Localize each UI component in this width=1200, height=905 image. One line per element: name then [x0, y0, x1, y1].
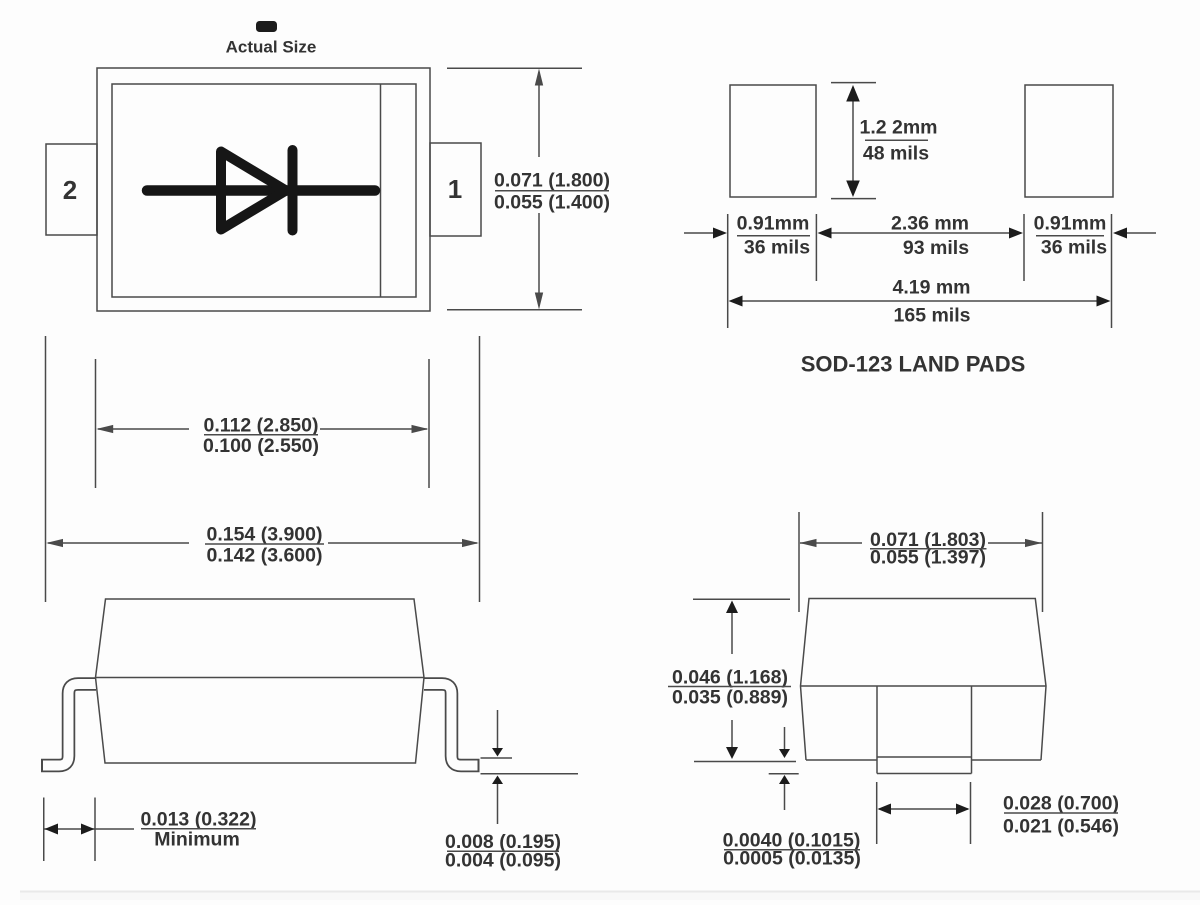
end view: body bottom left segment — [806, 759, 877, 761]
top view: pin 2 tab — [46, 144, 97, 235]
side view: foot-top extension line — [481, 757, 513, 759]
dim 0.013 right extension line — [94, 798, 96, 862]
svg-text:Actual Size: Actual Size — [226, 38, 317, 57]
extension line far-left (overall width) — [45, 336, 47, 602]
dim 0.071/0.055 vertical dimension line — [538, 72, 540, 157]
svg-text:36 mils: 36 mils — [744, 237, 810, 259]
svg-text:0.055 (1.400): 0.055 (1.400) — [494, 192, 610, 214]
dim text underline — [141, 828, 256, 830]
dim 0.046 bottom tick — [694, 761, 796, 763]
top view: package outer body outline — [97, 68, 430, 311]
dim 0.046 top tick — [693, 598, 790, 600]
top view: cathode band line — [380, 84, 382, 297]
dim 0.028 right extension line — [970, 782, 972, 844]
svg-text:0.154 (3.900): 0.154 (3.900) — [206, 524, 322, 546]
svg-text:93 mils: 93 mils — [903, 237, 969, 259]
actual-size chip icon — [256, 21, 277, 32]
svg-text:0.055 (1.397): 0.055 (1.397) — [870, 547, 986, 569]
pads extension line 4 — [1111, 214, 1113, 328]
dim 0.071/0.055 top extension line — [447, 67, 582, 69]
svg-text:0.91mm: 0.91mm — [1034, 213, 1107, 235]
dim 0.013 dimension line with leader — [44, 828, 134, 830]
top view: pin 1 tab — [430, 143, 481, 236]
pad width right outside arrow — [1124, 232, 1156, 234]
end view width dimension line — [800, 542, 862, 544]
side view: left gull-wing lead — [41, 684, 96, 766]
side view: seating plane line — [481, 773, 579, 775]
land pad right — [1025, 85, 1113, 197]
dim text underline — [205, 543, 324, 545]
svg-text:4.19 mm: 4.19 mm — [892, 277, 970, 299]
small standoff lower tick — [769, 773, 799, 775]
overall pads double arrow 4.19mm — [731, 300, 1108, 302]
svg-text:1: 1 — [448, 174, 462, 204]
dim 0.013 left extension line — [43, 798, 45, 862]
svg-text:0.013 (0.322): 0.013 (0.322) — [140, 809, 256, 831]
dim text underline — [724, 849, 860, 851]
extension line far-right (overall width) — [479, 336, 481, 602]
end view: left extension line — [798, 512, 800, 612]
dim text underline — [495, 190, 609, 192]
dim text underline — [870, 548, 987, 550]
dim 0.154/0.142 left arrowhead — [46, 539, 63, 547]
dim text underline — [204, 434, 318, 436]
svg-text:0.142 (3.600): 0.142 (3.600) — [206, 545, 322, 567]
svg-text:2.36 mm: 2.36 mm — [891, 213, 969, 235]
dim 0.071/0.055 bottom extension line — [447, 309, 582, 311]
side view: body waist line — [96, 677, 425, 679]
pads extension line 1 — [727, 214, 729, 328]
svg-text:48 mils: 48 mils — [863, 143, 929, 165]
diode symbol anode triangle — [221, 152, 286, 230]
fraction bar — [865, 139, 928, 141]
dim 0.046 up arrow — [731, 612, 733, 654]
pads extension line 3 — [1023, 214, 1025, 281]
svg-text:0.021 (0.546): 0.021 (0.546) — [1003, 816, 1119, 838]
diode symbol cathode bar — [288, 150, 298, 231]
pads extension line 2 — [815, 214, 817, 281]
land pad left — [730, 85, 816, 197]
svg-text:0.004 (0.095): 0.004 (0.095) — [445, 850, 561, 872]
bottom scan edge — [20, 891, 1200, 893]
end view: lead left edge — [876, 686, 878, 774]
dim 0.112/0.100 left arrowhead — [96, 425, 113, 433]
dim 0.013 left arrowhead — [45, 824, 59, 835]
standoff dim down arrow — [497, 710, 499, 749]
end view: lead right edge — [971, 686, 973, 774]
side view: package body outline — [96, 599, 425, 763]
dim text underline — [1004, 812, 1118, 814]
pad height down arrowhead — [846, 181, 860, 198]
dim 0.154/0.142 dimension line — [48, 542, 189, 544]
top view: package inner body outline — [112, 84, 416, 297]
svg-text:0.0005 (0.0135): 0.0005 (0.0135) — [723, 848, 861, 870]
extension line inner-left (body width) — [95, 359, 97, 488]
side view: right gull-wing lead — [424, 684, 480, 766]
end view: body outline — [801, 599, 1047, 761]
dim 0.028 dimension line — [879, 808, 968, 810]
end view: lead bend line — [877, 756, 972, 758]
svg-text:0.100 (2.550): 0.100 (2.550) — [203, 435, 319, 457]
pads gap double arrow — [820, 232, 1021, 234]
dim 0.112/0.100 right arrowhead — [412, 425, 429, 433]
svg-text:0.071 (1.800): 0.071 (1.800) — [494, 170, 610, 192]
svg-text:SOD-123 LAND PADS: SOD-123 LAND PADS — [801, 352, 1026, 377]
small standoff down arrow — [784, 727, 786, 750]
svg-text:0.035 (0.889): 0.035 (0.889) — [672, 687, 788, 709]
svg-text:0.112 (2.850): 0.112 (2.850) — [204, 415, 319, 437]
dim 0.046 down arrow — [731, 720, 733, 748]
dim 0.112/0.100 dimension line — [98, 428, 189, 430]
extension line inner-right (body width) — [428, 359, 430, 488]
dim text underline — [447, 850, 559, 852]
small standoff up arrow — [784, 783, 786, 810]
dim 0.154/0.142 right arrowhead — [462, 539, 479, 547]
dim text underline — [668, 686, 791, 688]
end view width right arrowhead — [1025, 539, 1042, 547]
pad width left outside arrow — [684, 232, 716, 234]
standoff dim up arrow — [497, 783, 499, 824]
svg-text:0.028 (0.700): 0.028 (0.700) — [1003, 793, 1119, 815]
svg-text:0.91mm: 0.91mm — [737, 213, 810, 235]
diode symbol lead wire — [147, 185, 375, 196]
svg-text:0.046 (1.168): 0.046 (1.168) — [672, 667, 788, 689]
pad height top tick — [831, 82, 876, 84]
svg-text:1.2 2mm: 1.2 2mm — [859, 117, 937, 139]
end view: body waist line — [801, 685, 1047, 687]
dim 0.028 left extension line — [876, 782, 878, 844]
end view: right extension line — [1042, 512, 1044, 612]
dim 0.071/0.055 down arrowhead — [535, 293, 543, 310]
dim 0.013 right arrowhead — [81, 824, 95, 835]
end view: lead bottom edge — [877, 773, 972, 775]
pad height bottom tick — [831, 198, 876, 200]
svg-text:2: 2 — [63, 175, 77, 205]
pad height dimension line — [852, 87, 854, 195]
end view: body bottom right segment — [972, 759, 1042, 761]
pad height up arrowhead — [846, 85, 860, 102]
svg-text:Minimum: Minimum — [154, 829, 240, 851]
svg-text:36 mils: 36 mils — [1041, 237, 1107, 259]
dim 0.071/0.055 up arrowhead — [535, 69, 543, 86]
svg-text:165 mils: 165 mils — [894, 305, 971, 327]
end view width left arrowhead — [800, 539, 817, 547]
